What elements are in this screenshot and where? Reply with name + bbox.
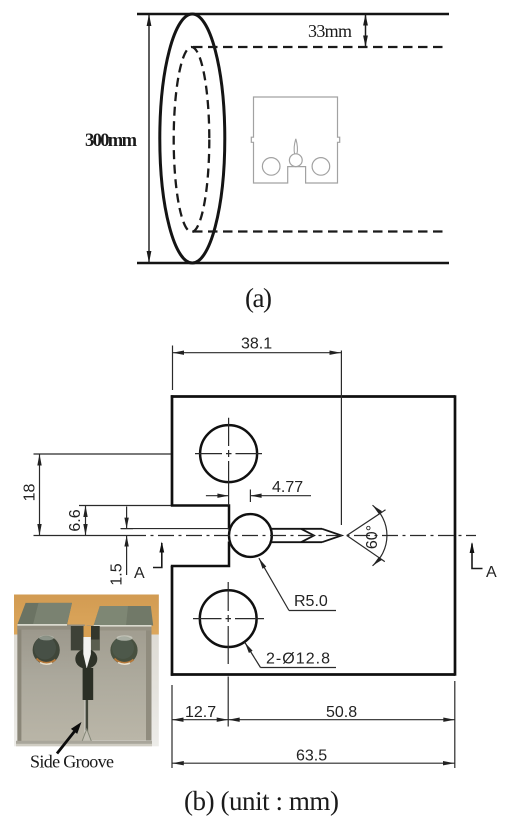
notch slot left dark wall — [71, 626, 84, 650]
inset crack sliver — [294, 139, 297, 154]
white light sliver — [83, 637, 91, 669]
60 degree angle lines — [347, 510, 386, 562]
lower pin hole — [200, 590, 257, 647]
label 60deg (rotated) — [364, 525, 381, 549]
svg-text:18: 18 — [22, 484, 39, 502]
upper pin hole — [200, 425, 257, 482]
dimension 18 — [34, 454, 172, 536]
crack chevron — [301, 529, 314, 542]
label A right — [486, 564, 497, 581]
svg-text:R5.0: R5.0 — [294, 593, 328, 610]
dimension 6.6 — [79, 506, 171, 536]
inset right pin hole — [312, 158, 330, 176]
horizontal centerline — [34, 535, 477, 537]
label 63.5 — [296, 748, 327, 765]
right block top face — [94, 606, 154, 626]
left block hole — [33, 635, 60, 664]
photo background table — [14, 595, 159, 747]
photo orange backdrop band — [14, 595, 159, 635]
svg-text:Side Groove: Side Groove — [30, 752, 114, 772]
specimen top edge — [171, 395, 455, 398]
leader R5.0 — [259, 558, 336, 610]
notch slot orange gap — [84, 626, 92, 637]
svg-text:38.1: 38.1 — [241, 336, 272, 353]
specimen right edge — [454, 395, 457, 675]
dimension 63.5 — [172, 761, 454, 765]
keyhole circle R5.0 — [229, 514, 272, 557]
svg-text:1.5: 1.5 — [109, 563, 126, 585]
label A left — [134, 565, 145, 582]
inset specimen outline box (gray) — [251, 97, 339, 183]
left block front face — [17, 625, 84, 741]
notch top edge — [171, 506, 229, 530]
60 degree arc with arrows — [373, 505, 387, 566]
svg-text:2-Ø12.8: 2-Ø12.8 — [266, 651, 330, 668]
cylinder bottom edge line — [137, 262, 449, 265]
label 6.6 (rotated) — [67, 509, 84, 531]
label 18 (rotated) — [22, 484, 39, 502]
dimension 38.1 — [173, 346, 342, 391]
extension line to crack tip — [340, 351, 342, 526]
groove dark strip below circle — [83, 668, 94, 700]
svg-text:4.77: 4.77 — [272, 479, 303, 496]
section mark A right — [470, 542, 483, 569]
right block hole — [110, 635, 137, 664]
dimension 4.77 — [206, 490, 311, 503]
svg-text:A: A — [486, 564, 497, 581]
crack slit upper edge — [271, 528, 322, 530]
label 50.8 — [326, 704, 357, 721]
label 33mm — [308, 21, 352, 41]
label R5.0 — [294, 593, 328, 610]
label 12.7 — [185, 704, 216, 721]
dimension 1.5 — [121, 507, 134, 576]
side groove V notch at bottom — [82, 729, 92, 742]
label 4.77 — [272, 479, 303, 496]
dimension 300mm vertical line with arrows — [147, 14, 152, 263]
upper hole crosshair — [195, 418, 262, 506]
block top-front bright edges — [17, 624, 151, 627]
dimension 12.7 — [172, 718, 228, 722]
side groove pointer arrow — [57, 722, 82, 754]
left block top face — [17, 603, 72, 625]
crack slit lower edge — [271, 541, 322, 543]
leader 2-dia12.8 — [245, 643, 336, 668]
inner bore lower dashed line — [193, 230, 448, 232]
dimension 50.8 — [228, 718, 455, 722]
inner bore upper dashed line — [193, 46, 448, 48]
svg-text:63.5: 63.5 — [296, 748, 327, 765]
thin groove line — [86, 700, 89, 738]
caption (b) (unit : mm) — [184, 786, 339, 816]
specimen bottom edge — [171, 673, 455, 676]
specimen left edge lower segment — [171, 566, 174, 676]
shadow under blocks — [16, 741, 152, 747]
inner bore dashed ellipse — [174, 47, 210, 232]
label 1.5 (rotated) — [109, 563, 126, 585]
svg-text:33mm: 33mm — [308, 21, 352, 41]
bottom extension lines — [172, 677, 455, 769]
svg-text:60°: 60° — [364, 525, 381, 549]
keyhole dark circle — [75, 649, 97, 669]
svg-text:300mm: 300mm — [85, 131, 138, 151]
specimen left edge upper segment — [171, 395, 174, 505]
caption (a) — [245, 283, 272, 313]
inset left pin hole — [262, 158, 280, 176]
section mark A left — [153, 542, 164, 568]
svg-text:12.7: 12.7 — [185, 704, 216, 721]
svg-text:(b) (unit : mm): (b) (unit : mm) — [184, 786, 339, 816]
notch bottom edge — [171, 542, 229, 567]
label Side Groove — [30, 752, 114, 772]
svg-text:6.6: 6.6 — [67, 509, 84, 531]
cylinder top edge line — [137, 13, 449, 16]
lower hole crosshair — [193, 582, 264, 664]
right block front face — [87, 626, 152, 741]
svg-text:A: A — [134, 565, 145, 582]
label 2-dia12.8 — [266, 651, 330, 668]
svg-text:(a): (a) — [245, 283, 272, 313]
inset keyhole circle — [289, 154, 302, 167]
label 38.1 — [241, 336, 272, 353]
notch slot right dark wall — [91, 626, 100, 650]
dimension 33mm double arrow — [363, 14, 368, 47]
crack slit taper to tip — [322, 529, 342, 542]
cylinder end solid ellipse — [160, 14, 225, 263]
svg-text:50.8: 50.8 — [326, 704, 357, 721]
slit edge extension line — [121, 528, 229, 530]
label 300mm — [85, 131, 138, 151]
